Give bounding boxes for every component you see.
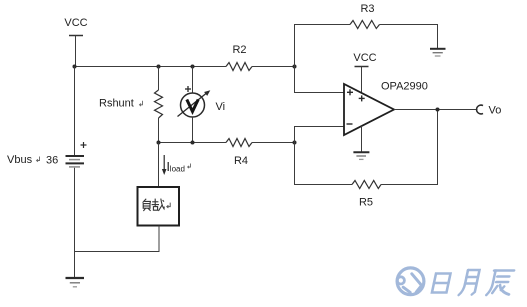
glyph 辰 — [486, 271, 514, 296]
voltmeter Vi — [178, 67, 211, 143]
junction Rshunt top — [157, 65, 161, 69]
wire battery to bottom return — [74, 168, 76, 277]
ground battery — [66, 278, 85, 287]
op-amp U1 OPA2990 — [344, 84, 394, 135]
glyph 月 — [459, 270, 480, 295]
wire op-amp output — [394, 109, 478, 111]
svg-text:Vi: Vi — [216, 101, 226, 113]
wire node A up to R3 — [295, 25, 351, 67]
wire node B down to R5 — [295, 143, 353, 185]
power VCC top-left — [64, 17, 87, 67]
svg-text:load: load — [170, 165, 185, 174]
label Vbus 36 — [7, 154, 58, 167]
wire shunt rail down to load box — [158, 143, 160, 187]
label Vi — [216, 101, 226, 113]
svg-text:VCC: VCC — [353, 52, 376, 64]
wire left rail down to battery — [74, 67, 76, 156]
wire top rail — [75, 66, 227, 68]
svg-text:VCC: VCC — [64, 17, 87, 29]
current arrow Iload — [162, 155, 191, 175]
watermark logo — [397, 268, 424, 295]
power VCC op-amp — [353, 52, 376, 94]
resistor Rshunt — [155, 67, 163, 143]
return mark — [167, 203, 170, 208]
node B junction — [293, 141, 297, 145]
ground R3 — [430, 49, 446, 56]
resistor R4 — [226, 139, 252, 168]
wire R4 to node B — [252, 142, 295, 144]
battery V1 Vbus — [66, 142, 87, 167]
label OPA2990 — [381, 81, 428, 93]
resistor R2 — [226, 44, 252, 71]
wire node A to op-amp non-inverting input — [295, 67, 345, 93]
junction output / R5 — [436, 108, 440, 112]
wire bottom rail — [159, 142, 227, 144]
label Rshunt — [99, 98, 143, 110]
wire bottom return to load — [75, 226, 160, 252]
load box 负载 — [138, 187, 180, 226]
junction Rshunt bottom — [157, 141, 161, 145]
glyph 载 — [152, 199, 165, 211]
junction voltmeter top — [191, 65, 195, 69]
junction voltmeter bottom — [191, 141, 195, 145]
svg-text:R2: R2 — [232, 44, 246, 56]
svg-text:R5: R5 — [359, 197, 373, 209]
svg-text:R3: R3 — [360, 3, 374, 15]
wire load box to bottom return — [158, 226, 160, 252]
svg-text:Vbus: Vbus — [7, 154, 33, 166]
svg-text:OPA2990: OPA2990 — [381, 81, 428, 93]
ground op-amp — [353, 126, 369, 160]
watermark text 日月辰 — [432, 270, 514, 295]
terminal Vo — [477, 105, 502, 117]
svg-text:R4: R4 — [234, 155, 248, 167]
glyph 负 — [143, 199, 151, 211]
svg-text:Vo: Vo — [489, 105, 502, 117]
svg-text:36: 36 — [46, 155, 58, 167]
node A junction — [293, 65, 297, 69]
svg-text:Rshunt: Rshunt — [99, 98, 134, 110]
wire node B to op-amp inverting input — [295, 127, 345, 143]
glyph 日 — [432, 274, 451, 293]
resistor R5 — [352, 181, 381, 209]
wire R5 to output — [381, 110, 438, 185]
junction top rail / left rail — [73, 65, 77, 69]
wire R3 to ground — [380, 25, 438, 49]
wire R2 to node A — [252, 66, 295, 68]
resistor R3 — [350, 3, 380, 29]
